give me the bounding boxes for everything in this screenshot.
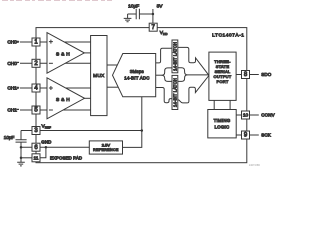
svg-text:TIMING: TIMING [214, 118, 231, 123]
svg-text:SCK: SCK [261, 133, 271, 138]
svg-text:14-BIT LATCH: 14-BIT LATCH [172, 42, 177, 71]
wire timing logic to pin 9 [236, 134, 241, 136]
MUX [91, 36, 107, 116]
three-state serial output port [209, 52, 236, 100]
wire pin 9 to SCK [250, 134, 259, 136]
wire lower latch to output port funnel [178, 76, 209, 103]
svg-text:10µF: 10µF [4, 135, 15, 140]
svg-text:CH1+: CH1+ [7, 85, 19, 91]
pin 3 [32, 127, 40, 135]
wire CH1- to MUX (through pin 5 and S&H) [20, 109, 91, 111]
svg-text:CH0−: CH0− [7, 61, 19, 67]
pin 4 [32, 84, 40, 92]
cropped red heading remnants [2, 0, 112, 2]
wire CH0+ to MUX (through pin 1 and S&H) [20, 41, 91, 43]
wire VREF down to bypass capacitor [20, 131, 22, 140]
wire GND net to 2.5V reference [21, 146, 89, 148]
svg-text:MUX: MUX [93, 73, 105, 79]
wire CH1+ to MUX (through pin 4 and S&H) [20, 87, 91, 89]
svg-text:CH0+: CH0+ [7, 39, 19, 45]
svg-text:GND: GND [41, 139, 51, 144]
wire CH0- to MUX (through pin 2 and S&H) [20, 62, 91, 64]
3V supply label [153, 4, 163, 14]
ADC 3Msps 14-bit [113, 54, 156, 97]
svg-text:EXPOSED PAD: EXPOSED PAD [50, 156, 82, 161]
svg-text:LTC1407A-1: LTC1407A-1 [212, 32, 244, 38]
svg-text:10: 10 [243, 113, 249, 119]
pin 8 [242, 71, 250, 79]
wire serial port to pin 8 [236, 74, 241, 76]
14-bit latch (lower) [172, 75, 178, 109]
svg-text:14-BIT LATCH: 14-BIT LATCH [172, 78, 177, 107]
node 3V junction dot [152, 13, 155, 16]
ground (top left of cap) [124, 14, 132, 22]
wire ADC to lower latch (bottom branch) [156, 88, 172, 103]
svg-text:LOGIC: LOGIC [215, 124, 230, 129]
svg-text:SDO: SDO [261, 72, 271, 77]
pin 10 [242, 111, 250, 119]
svg-text:14074 BD: 14074 BD [249, 164, 260, 167]
svg-text:3V: 3V [157, 4, 164, 10]
wire ADC bus split brace to latches [156, 68, 172, 82]
op-amp S&H 2 [47, 78, 85, 119]
wire pin 11 to ground stem [21, 157, 32, 159]
wire MUX to ADC (lower) [107, 86, 119, 88]
svg-text:VREF: VREF [42, 124, 52, 130]
svg-text:3Msps: 3Msps [130, 69, 145, 74]
bus serial port to timing logic [214, 100, 230, 109]
wire S&H1 output to MUX [84, 52, 91, 54]
pin 1 [32, 38, 40, 46]
svg-text:CH1−: CH1− [7, 107, 19, 113]
pin 2 [32, 59, 40, 67]
pin 9 [242, 131, 250, 139]
svg-text:10µF: 10µF [128, 4, 139, 10]
node cap/pin11 junction dot [20, 157, 23, 160]
pin 7 VDD [149, 23, 157, 31]
wire pin 10 to CONV [250, 114, 259, 116]
decoupling capacitor 10uF (top) [128, 4, 139, 20]
svg-text:VDD: VDD [160, 30, 168, 36]
wire upper latch to output port funnel [178, 47, 209, 75]
wire junction down to pin 11 [40, 147, 46, 158]
pin 6 [32, 143, 40, 151]
wire ADC to upper latch (top branch) [156, 48, 172, 63]
14-bit latch (upper) [172, 40, 178, 73]
bypass capacitor 10uF (VREF) [4, 135, 27, 142]
node VREF/reference junction dot [141, 129, 144, 132]
svg-text:14-BIT ADC: 14-BIT ADC [124, 75, 149, 80]
wire MUX to ADC (upper) [107, 64, 119, 66]
node cap/GND junction dot [20, 146, 23, 149]
wire cap to 3V node [139, 13, 153, 15]
wire S&H2 output to MUX [84, 97, 90, 99]
wire 3V node to pin 7 [152, 14, 154, 23]
wire reference to ADC [123, 97, 142, 148]
svg-text:REFERENCE: REFERENCE [93, 148, 119, 152]
wire latch bus merge brace to port [178, 68, 209, 82]
node GND/exposed-pad junction dot [45, 146, 48, 149]
chip outline LTC1407A-1 [36, 28, 247, 163]
pin 5 [32, 106, 40, 114]
wire pin 8 to SDO [250, 74, 259, 76]
svg-text:11: 11 [34, 155, 39, 161]
svg-text:CONV: CONV [261, 113, 274, 118]
ground symbol (bottom left) [17, 162, 25, 166]
svg-text:2.5V: 2.5V [102, 143, 111, 148]
svg-text:S & H: S & H [56, 97, 70, 103]
op-amp S&H 1 [47, 33, 84, 74]
timing logic block [208, 110, 236, 138]
wire cap to ground (top) [128, 13, 137, 15]
svg-text:S & H: S & H [56, 52, 70, 58]
svg-text:PORT: PORT [216, 79, 228, 84]
wire capacitor to ground net [20, 142, 22, 162]
voltage reference 2.5V block [89, 141, 122, 154]
pin 11 [32, 154, 40, 162]
wire pin 3 VREF to reference node [21, 130, 142, 132]
wire timing logic to pin 10 [236, 114, 241, 116]
